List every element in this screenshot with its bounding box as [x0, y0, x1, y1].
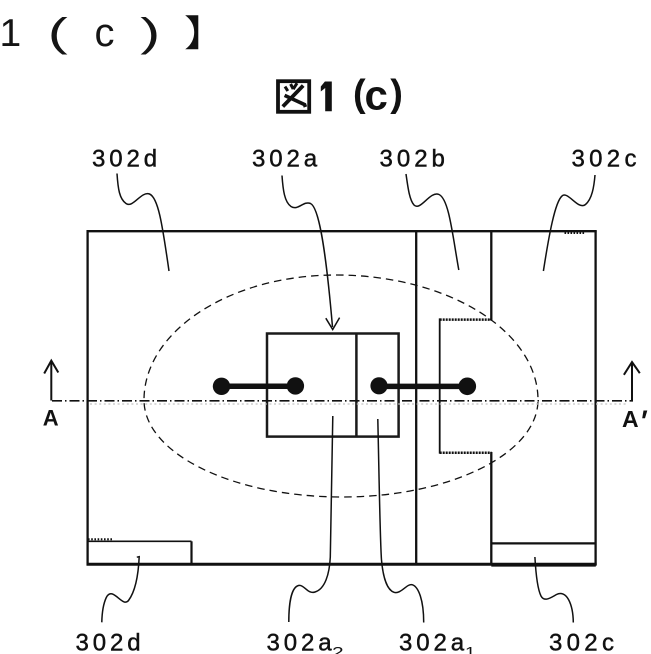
svg-text:302b: 302b — [380, 146, 449, 173]
svg-text:A: A — [622, 406, 639, 432]
svg-text:302a: 302a — [267, 630, 336, 654]
svg-text:A: A — [43, 406, 59, 431]
svg-text:): ) — [390, 73, 403, 115]
svg-text:c: c — [365, 72, 388, 119]
svg-text:302d: 302d — [92, 146, 161, 173]
wire bond dot left inner — [287, 377, 304, 394]
svg-text:(: ( — [48, 10, 68, 55]
leader line from 302a with arrow — [282, 176, 340, 330]
title kanji 図 (box) — [278, 81, 309, 112]
header right black lenticular bracket 】 — [185, 15, 198, 49]
svg-text:302a: 302a — [399, 630, 468, 654]
svg-text:c: c — [95, 11, 115, 55]
svg-text:302d: 302d — [76, 630, 145, 654]
svg-text:302c: 302c — [549, 630, 618, 654]
prime mark of A' — [642, 411, 647, 419]
chip divider line (302a2 | 302a1) — [355, 334, 358, 437]
leader line to 302a2 (bottom) — [289, 416, 333, 622]
svg-text:1: 1 — [0, 12, 21, 55]
wire bond dot right outer — [459, 378, 477, 396]
svg-text:302c: 302c — [572, 146, 641, 173]
wire bond dot right inner — [370, 377, 387, 394]
notch outline (stippled) of electrode 302c — [440, 318, 492, 453]
stipple mark on top edge near 302c — [565, 232, 586, 234]
header text fragment "1 （c）】" of 【図1（c）】 — [0, 10, 160, 55]
leader line from 302c (top) — [543, 175, 595, 271]
svg-text:1: 1 — [465, 644, 475, 654]
wire bond dot left outer — [213, 378, 230, 395]
svg-text:302a: 302a — [252, 146, 321, 173]
leader line from 302b (top) — [406, 174, 459, 270]
wire (right segment) — [379, 384, 467, 390]
wire (left segment) — [222, 384, 296, 390]
chip 302a outline — [267, 334, 399, 437]
svg-text:): ) — [140, 10, 160, 55]
svg-text:2: 2 — [332, 643, 344, 654]
centerline gray shadow — [90, 403, 628, 405]
dashed ellipse (magnified region) — [144, 275, 538, 497]
leader line to 302d (bottom) — [102, 557, 139, 623]
section centerline A-A' (chain line) — [52, 400, 633, 402]
leader line to 302a1 (bottom) — [378, 419, 424, 623]
section arrow A (left) — [44, 361, 58, 401]
bottom-right pad rectangle 302c — [491, 543, 596, 565]
package outline: main rectangle — [87, 230, 597, 565]
electrode boundary vertical line (302b/302c, lower part) — [490, 452, 492, 564]
electrode boundary vertical line (302b left edge) — [415, 231, 417, 564]
electrode boundary vertical line (302b/302c, upper part) — [490, 231, 492, 321]
section arrow A' (right) — [624, 362, 640, 402]
leader line to 302c (bottom) — [535, 557, 573, 623]
leader line from 302d (top) — [117, 174, 169, 272]
title text 1(c) — [321, 72, 403, 119]
bottom-left pad rectangle 302d — [88, 541, 192, 564]
stipple mark on pad 302d — [88, 538, 113, 540]
